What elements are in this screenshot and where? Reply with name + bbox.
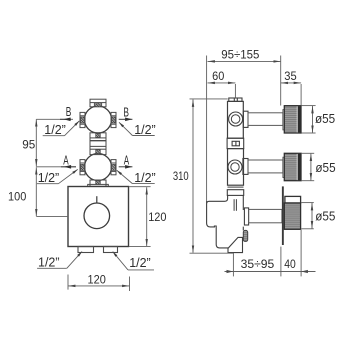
stem 1: [248, 113, 283, 126]
valve body 2 (side): [228, 149, 244, 186]
port circle 2 outer: [228, 160, 242, 174]
svg-text:310: 310: [173, 169, 189, 183]
valve body 1 (side): [228, 101, 244, 138]
ext line bottom centre: [232, 253, 234, 277]
knob 3 wall plate: [282, 186, 284, 245]
port circle 1 inner: [231, 115, 240, 124]
section arrow A left: [61, 165, 76, 169]
top fitting of B: [90, 99, 106, 107]
section arrow B left: [60, 118, 71, 122]
stem plate 3: [244, 208, 248, 225]
bottom dim line: [225, 271, 316, 273]
svg-text:120: 120: [88, 272, 107, 286]
section arrow A right: [119, 165, 133, 169]
ext line row A: [36, 166, 76, 168]
centre line ext: [234, 84, 236, 98]
svg-text:A: A: [124, 154, 130, 168]
leader 1/2 mid-left: [37, 169, 78, 183]
bottom outlet left: [78, 247, 94, 253]
svg-text:35÷95: 35÷95: [241, 257, 275, 271]
knob 3 cap ring: [285, 196, 301, 203]
dim 95 vertical line: [35, 119, 37, 166]
top cap: [229, 98, 242, 101]
knob 3 body: [284, 203, 300, 229]
svg-text:100: 100: [8, 190, 27, 204]
svg-text:35: 35: [284, 69, 297, 83]
stem 3: [249, 209, 282, 222]
svg-text:B: B: [66, 105, 72, 119]
dim 120 vertical (right of box): [146, 187, 148, 246]
svg-text:60: 60: [212, 69, 224, 83]
mixer box body: [68, 187, 129, 247]
leader 1/2 bottom-right: [113, 252, 154, 270]
right fitting of A: [111, 160, 116, 175]
dia 55 dim knob2: [301, 152, 314, 154]
leader 1/2 top-right: [119, 122, 155, 135]
left fitting of B: [80, 112, 85, 127]
section arrow B right: [119, 118, 133, 122]
svg-text:40: 40: [284, 257, 296, 271]
knob 1 body: [284, 106, 301, 133]
dim 100 vertical line: [35, 167, 37, 216]
bottom outlet right: [104, 247, 118, 253]
valve body circle B: [85, 106, 112, 133]
svg-text:A: A: [63, 154, 69, 168]
port circle 1 outer: [229, 112, 243, 126]
connector block (side): [227, 138, 244, 148]
knob 2 body: [284, 153, 301, 180]
svg-text:1/2”: 1/2”: [38, 255, 60, 270]
knob 1 flange: [283, 110, 285, 130]
svg-text:1/2”: 1/2”: [134, 122, 156, 137]
wall plate ext line top: [280, 56, 282, 106]
svg-text:B: B: [123, 106, 129, 120]
dia 55 dim knob1: [302, 105, 316, 107]
svg-text:1/2”: 1/2”: [44, 122, 66, 137]
dim 310: [192, 99, 194, 252]
leader 1/2 mid-right: [117, 170, 155, 183]
svg-text:ø55: ø55: [315, 160, 335, 175]
svg-text:ø55: ø55: [315, 111, 335, 126]
wall line (left extension): [206, 56, 208, 203]
knob 2 flange: [283, 157, 285, 177]
collar bands: [227, 187, 243, 195]
valve body circle A: [85, 154, 112, 181]
dia 55 dim knob3: [301, 202, 314, 204]
dim 60: [208, 82, 236, 84]
svg-text:1/2”: 1/2”: [134, 170, 156, 185]
left fitting of A: [80, 160, 85, 175]
dim 120 horizontal (below box): [68, 285, 130, 287]
bottom fitting of A: [88, 180, 109, 186]
ext line bottom wall: [280, 247, 282, 277]
stem plate 1: [243, 111, 248, 127]
ext line row B: [36, 118, 73, 120]
knob face ext line: [300, 84, 302, 106]
leader 1/2 bottom-left: [37, 252, 82, 269]
dim 95-155: [208, 60, 281, 62]
svg-text:ø55: ø55: [315, 208, 335, 223]
port circle 2 inner: [231, 163, 239, 171]
svg-text:95÷155: 95÷155: [221, 47, 259, 61]
stem 2: [248, 160, 283, 173]
box profile (side): [207, 195, 244, 252]
ext line bottom knob face: [300, 230, 302, 277]
ext line box centre: [36, 215, 68, 217]
svg-text:95: 95: [22, 137, 35, 151]
cartridge stem ticks: [233, 199, 235, 211]
connector tube between B and A: [90, 133, 107, 155]
bottom dim outside arrows: [227, 270, 234, 273]
stem plate 2: [243, 159, 248, 175]
knob index tick: [96, 196, 98, 203]
small knurled wheel: [243, 230, 247, 241]
svg-text:1/2”: 1/2”: [129, 255, 151, 270]
leader 1/2 top-left: [43, 121, 80, 136]
mixer knob circle: [84, 203, 110, 229]
dim 35 top: [281, 82, 301, 84]
svg-text:1/2”: 1/2”: [38, 170, 60, 185]
right fitting of B: [111, 112, 116, 127]
svg-text:120: 120: [148, 210, 167, 224]
